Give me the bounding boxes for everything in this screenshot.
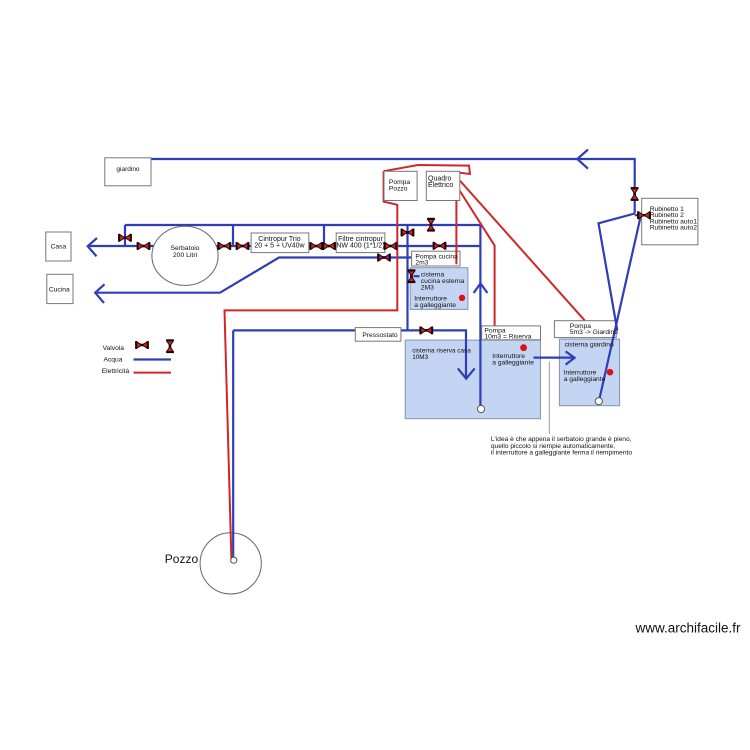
svg-text:Elettricità: Elettricità [102,368,130,375]
svg-text:a galleggiante: a galleggiante [492,360,534,367]
svg-text:cisterna giardino: cisterna giardino [565,341,614,348]
svg-text:Pressostato: Pressostato [362,332,398,339]
svg-text:NW 400 (1*1/2): NW 400 (1*1/2) [336,242,384,249]
svg-text:Cucina: Cucina [49,287,70,294]
svg-text:10M3: 10M3 [412,354,428,361]
svg-text:Rubinetto auto2: Rubinetto auto2 [650,225,698,232]
svg-text:2m3: 2m3 [415,260,428,267]
svg-text:www.archifacile.fr: www.archifacile.fr [635,621,742,636]
svg-text:Pozzo: Pozzo [165,552,199,566]
svg-text:giardino: giardino [116,166,140,173]
svg-text:a galleggiante: a galleggiante [564,376,606,383]
svg-text:5m3 -> Giardino: 5m3 -> Giardino [570,329,618,336]
svg-text:Serbatoio: Serbatoio [170,245,199,252]
svg-text:il interruttore a galleggiante: il interruttore a galleggiante ferma il … [491,449,632,456]
svg-text:a galleggiante: a galleggiante [414,302,456,309]
svg-text:2M3: 2M3 [421,285,434,292]
svg-text:10m3 = Riserva: 10m3 = Riserva [484,334,531,341]
svg-text:20 + 5 + UV40w: 20 + 5 + UV40w [254,242,305,249]
svg-text:Valvola: Valvola [103,345,125,352]
svg-text:Casa: Casa [51,243,67,250]
svg-text:Elettrico: Elettrico [428,182,453,189]
svg-text:Pozzo: Pozzo [389,185,408,192]
svg-text:200 Litri: 200 Litri [173,252,198,259]
svg-text:Acqua: Acqua [104,357,123,364]
